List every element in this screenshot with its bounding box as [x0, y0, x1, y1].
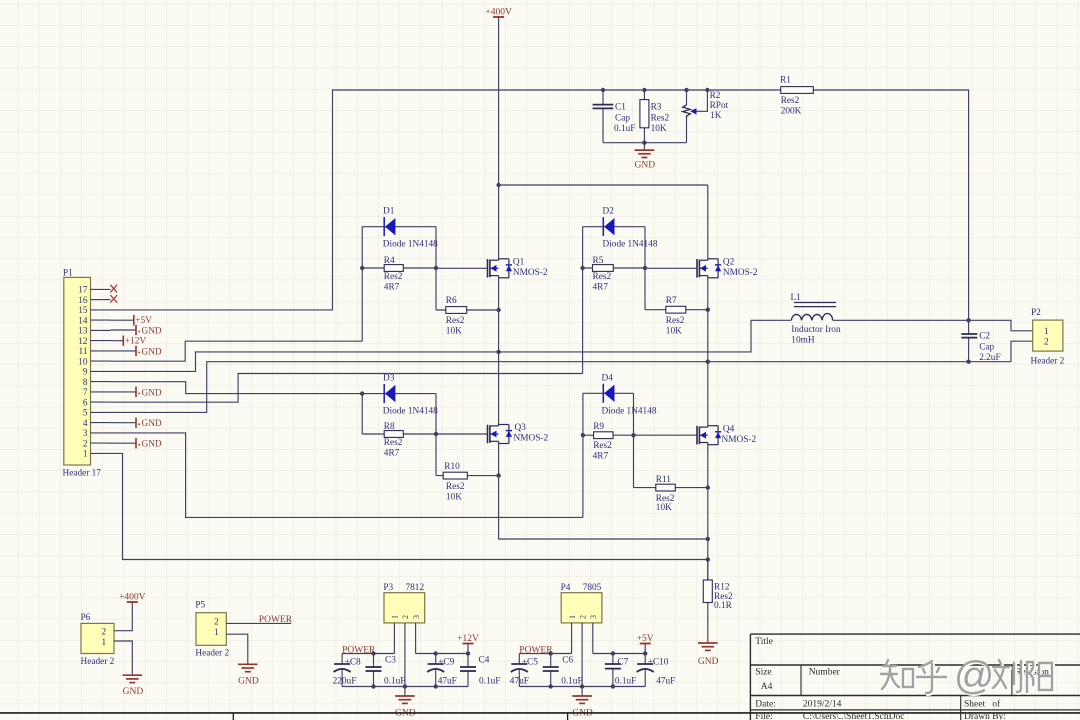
svg-text:1: 1: [83, 450, 88, 460]
svg-text:4R7: 4R7: [384, 448, 400, 458]
svg-text:R7: R7: [666, 296, 677, 306]
svg-text:7: 7: [83, 388, 88, 398]
diode D2: [602, 217, 604, 236]
regulator P3 7812: [384, 593, 425, 623]
svg-text:14: 14: [78, 316, 88, 326]
svg-text:NMOS-2: NMOS-2: [722, 435, 757, 445]
node +400V branch junction: [496, 183, 500, 187]
wire P3 pin2: [404, 623, 406, 696]
svg-text:Title: Title: [755, 637, 773, 647]
wire P3 pin1: [393, 623, 395, 654]
wire Q2 gate: [645, 267, 697, 269]
node output rail end: [643, 651, 647, 655]
svg-text:+5V: +5V: [135, 316, 152, 326]
node R5 left: [580, 266, 584, 270]
resistor R7: [645, 309, 708, 311]
capacitor C4: [467, 654, 469, 668]
svg-text:R5: R5: [593, 256, 604, 266]
wire Q4 gate: [634, 434, 698, 436]
svg-text:NMOS-2: NMOS-2: [514, 434, 549, 444]
node R9 left junction: [581, 433, 585, 437]
watermark zhihu: [881, 660, 1053, 694]
node R9 right: [631, 433, 635, 437]
no-connect X pin17: [110, 285, 117, 293]
wire Q2 source column: [707, 278, 709, 426]
svg-text:2: 2: [1044, 338, 1049, 348]
node R11 right: [706, 485, 710, 489]
wire P4 pin1: [571, 623, 573, 654]
node sense join: [706, 537, 710, 541]
svg-text:7812: 7812: [406, 583, 425, 593]
wire cell4 left column: [582, 393, 584, 517]
svg-text:P6: P6: [81, 613, 91, 623]
wire +12V riser: [467, 644, 469, 654]
svg-text:R10: R10: [444, 462, 460, 472]
transistor Q3: [487, 425, 489, 444]
node bottom rail C7: [611, 684, 615, 688]
svg-text:13: 13: [78, 327, 88, 337]
svg-text:Header 2: Header 2: [195, 648, 229, 658]
wire bus right of R1: [813, 90, 968, 320]
transistor Q2: [696, 259, 698, 278]
title block: [749, 634, 751, 720]
svg-text:+C10: +C10: [648, 658, 669, 668]
wire Q3 gate: [436, 433, 488, 435]
node C2 bottom: [966, 360, 970, 364]
power port +5V pin14: [111, 319, 134, 321]
ground GND below P6: [123, 674, 143, 676]
svg-text:Q4: Q4: [723, 425, 735, 435]
svg-text:Res2: Res2: [781, 96, 800, 106]
power port GND pin7: [111, 391, 137, 393]
wire sense pin1: [111, 453, 708, 559]
wire P4 pin3: [592, 623, 594, 654]
svg-text:GND: GND: [635, 160, 656, 170]
connector P6 Header 2: [81, 623, 114, 653]
svg-text:0.1uF: 0.1uF: [479, 677, 500, 687]
svg-text:L1: L1: [791, 293, 802, 303]
resistor R5: [583, 267, 645, 269]
power port +400V: [493, 16, 504, 18]
wire P3 pin3: [415, 623, 417, 654]
svg-text:4: 4: [83, 419, 88, 429]
pin 15 of P1: [91, 309, 111, 311]
svg-text:4R7: 4R7: [593, 452, 609, 462]
wire P4 input rail: [519, 653, 571, 655]
diode D3: [383, 384, 385, 403]
svg-text:D4: D4: [602, 374, 614, 384]
wire pin15 to bus: [111, 90, 781, 310]
svg-text:10K: 10K: [446, 327, 462, 337]
node D3 left: [360, 391, 364, 395]
ground GND below P5: [238, 663, 258, 665]
svg-text:C6: C6: [562, 656, 573, 666]
svg-text:Q1: Q1: [513, 258, 525, 268]
svg-text:+400V: +400V: [119, 593, 146, 603]
node bottom rail C9: [434, 684, 438, 688]
svg-text:11: 11: [79, 347, 88, 357]
power port +12V pin12: [111, 340, 124, 342]
pin 6 of P1: [91, 401, 111, 403]
svg-text:2: 2: [214, 618, 219, 628]
node sense pin1 join: [706, 557, 710, 561]
pin 7 of P1: [91, 391, 111, 393]
svg-text:7805: 7805: [583, 583, 602, 593]
wire P4 pin2: [581, 623, 583, 696]
capacitor C1: [601, 88, 605, 92]
wire P3 bottom rail: [342, 686, 468, 688]
svg-text:10K: 10K: [656, 503, 672, 513]
svg-text:Diode 1N4148: Diode 1N4148: [383, 240, 438, 250]
svg-text:Number: Number: [809, 667, 841, 677]
svg-text:Size: Size: [755, 667, 771, 677]
resistor R8: [362, 433, 436, 435]
node output A leg: [496, 350, 500, 354]
diode D4: [602, 384, 604, 403]
svg-text:8: 8: [83, 378, 88, 388]
node R4 left: [360, 266, 364, 270]
svg-text:Diode 1N4148: Diode 1N4148: [603, 240, 658, 250]
svg-text:10K: 10K: [651, 124, 667, 134]
svg-text:2: 2: [102, 628, 107, 638]
svg-text:P4: P4: [561, 583, 571, 593]
pin 8 of P1: [91, 381, 111, 383]
svg-text:10mH: 10mH: [791, 336, 815, 346]
svg-text:200K: 200K: [781, 107, 802, 117]
wire P5 pin1 to ground: [226, 634, 248, 664]
svg-text:POWER: POWER: [519, 645, 553, 655]
svg-text:A4: A4: [761, 682, 773, 692]
svg-text:+C8: +C8: [345, 658, 361, 668]
wire +400V vertical to Q1 drain: [498, 17, 500, 259]
resistor R10: [436, 475, 499, 477]
svg-text:9: 9: [83, 368, 88, 378]
svg-text:47uF: 47uF: [438, 677, 457, 687]
svg-text:Res2: Res2: [446, 316, 465, 326]
wire cell3 mid column: [435, 394, 437, 476]
svg-text:0.1uF: 0.1uF: [614, 124, 635, 134]
power port GND pin4: [111, 422, 137, 424]
svg-text:17: 17: [78, 286, 88, 296]
wire gates B pin6: [111, 374, 583, 403]
node R8 right: [434, 432, 438, 436]
svg-text:1: 1: [1044, 327, 1049, 337]
no-connect X pin16: [110, 295, 117, 303]
svg-text:GND: GND: [238, 676, 259, 686]
svg-text:2019/2/14: 2019/2/14: [803, 700, 842, 710]
capacitor C2: [968, 320, 970, 334]
wire cell2 mid column: [644, 227, 646, 310]
power port GND pin13: [111, 329, 137, 331]
wire cell2 left column: [582, 227, 584, 374]
node R5 right: [643, 266, 647, 270]
svg-text:NMOS-2: NMOS-2: [513, 268, 548, 278]
potentiometer R2: [684, 88, 688, 92]
resistor R4: [362, 267, 436, 269]
pin 3 of P1: [91, 432, 111, 434]
wire P3 input rail: [342, 653, 394, 655]
svg-text:R11: R11: [656, 475, 672, 485]
node R10 right: [496, 473, 500, 477]
svg-text:GND: GND: [123, 687, 144, 697]
pin 10 of P1: [91, 360, 111, 362]
svg-text:2: 2: [401, 615, 410, 619]
node R6 right: [496, 308, 500, 312]
svg-text:@: @: [954, 654, 995, 698]
wire P6 pin1 to ground: [114, 641, 132, 675]
node output B leg: [706, 360, 710, 364]
svg-text:Sheet of: Sheet of: [964, 699, 1001, 710]
power port +5V: [640, 643, 651, 645]
svg-text:R2: R2: [710, 91, 721, 101]
transistor Q4: [696, 426, 698, 445]
pin 2 of P1: [91, 442, 111, 444]
wire P5 pin2 POWER: [226, 622, 291, 624]
wire pin8 gate drive and D3 row: [111, 382, 437, 394]
pin 5 of P1: [91, 411, 111, 413]
node C9 top: [434, 651, 438, 655]
inductor L1: [794, 302, 836, 304]
wire R2 wiper: [705, 88, 709, 92]
wire pin10 gate drive A1: [111, 341, 363, 361]
svg-text:+12V: +12V: [457, 634, 479, 644]
svg-text:GND: GND: [142, 440, 162, 450]
svg-text:C1: C1: [615, 103, 626, 113]
svg-text:Res2: Res2: [384, 438, 403, 448]
svg-text:P1: P1: [63, 268, 73, 278]
wire P6 pin2 to +400V: [114, 602, 132, 631]
svg-text:P2: P2: [1031, 308, 1041, 318]
node R4 right: [434, 266, 438, 270]
wire cell3 left column: [361, 394, 363, 434]
svg-text:47uF: 47uF: [656, 677, 675, 687]
svg-text:Res2: Res2: [384, 272, 403, 282]
power port GND pin2: [111, 442, 137, 444]
svg-text:R6: R6: [446, 296, 457, 306]
ground GND below R12: [698, 642, 718, 644]
svg-text:5: 5: [83, 409, 88, 419]
svg-text:4R7: 4R7: [384, 282, 400, 292]
svg-text:0.1uF: 0.1uF: [615, 677, 636, 687]
node rail to ground: [642, 141, 646, 145]
node C2 top: [966, 318, 970, 322]
ground GND below P3: [395, 695, 415, 697]
wire output A pin9 to inductor: [111, 320, 792, 371]
svg-text:+12V: +12V: [125, 337, 147, 347]
resistor R11: [634, 487, 708, 489]
resistor R9: [583, 434, 634, 436]
svg-text:C4: C4: [479, 656, 490, 666]
svg-text:GND: GND: [142, 326, 162, 336]
svg-text:0.1uF: 0.1uF: [561, 677, 582, 687]
ground GND below R3: [643, 143, 645, 150]
power port +12V: [463, 643, 474, 645]
svg-text:R8: R8: [384, 422, 395, 432]
svg-text:+400V: +400V: [485, 8, 512, 18]
svg-text:Cap: Cap: [615, 114, 630, 124]
svg-text:3: 3: [412, 615, 421, 619]
svg-text:P3: P3: [383, 583, 393, 593]
capacitor C10: [644, 654, 646, 665]
node bottom rail pin2: [580, 684, 584, 688]
connector P2 Header 2: [1033, 320, 1063, 351]
pin 1 of P1: [91, 452, 111, 454]
svg-text:1: 1: [568, 615, 577, 619]
wire pin3 gate drive B2: [111, 433, 583, 518]
svg-text:Res2: Res2: [593, 441, 612, 451]
wire inductor to C2 and P2 pin1: [833, 320, 1033, 331]
svg-text:Header 2: Header 2: [81, 657, 115, 667]
svg-text:GND: GND: [142, 388, 162, 398]
capacitor C3: [373, 654, 375, 668]
wire cell4 mid column: [633, 393, 635, 487]
svg-text:GND: GND: [698, 657, 719, 667]
svg-text:10K: 10K: [446, 493, 462, 503]
svg-text:0.1R: 0.1R: [714, 601, 733, 611]
pin 9 of P1: [91, 370, 111, 372]
svg-text:C7: C7: [617, 658, 628, 668]
resistor R12: [707, 560, 709, 643]
svg-text:6: 6: [83, 398, 88, 408]
regulator P4 7805: [561, 593, 602, 623]
svg-text:Res2: Res2: [593, 272, 612, 282]
svg-text:+C5: +C5: [522, 658, 538, 668]
svg-text:Diode 1N4148: Diode 1N4148: [602, 407, 657, 417]
svg-text:C3: C3: [385, 656, 396, 666]
node C7 top: [611, 651, 615, 655]
svg-text:Res2: Res2: [446, 482, 465, 492]
ground GND below P4: [572, 695, 592, 697]
svg-text:47uF: 47uF: [510, 677, 529, 687]
capacitor C8: [341, 654, 343, 665]
node bottom rail C6: [549, 684, 553, 688]
svg-text:RPot: RPot: [710, 101, 729, 111]
svg-text:Cap: Cap: [979, 343, 994, 353]
svg-text:2: 2: [578, 615, 587, 619]
svg-text:220uF: 220uF: [333, 677, 357, 687]
svg-text:1: 1: [391, 615, 400, 619]
wire D1 row: [362, 226, 436, 228]
svg-text:3: 3: [83, 429, 88, 439]
svg-text:Header 17: Header 17: [63, 469, 102, 479]
svg-text:GND: GND: [142, 347, 162, 357]
wire P4 output rail: [593, 653, 645, 655]
svg-text:File:: File:: [755, 712, 772, 720]
connector P1 Header 17: [64, 277, 91, 465]
svg-text:10: 10: [78, 357, 88, 367]
svg-text:Q3: Q3: [515, 423, 527, 433]
wire Q1 gate: [436, 267, 488, 269]
wire Q3 source to sense: [499, 444, 708, 540]
pin 16 of P1: [91, 299, 111, 301]
connector P5 Header 2: [196, 613, 226, 646]
pin 14 of P1: [91, 319, 111, 321]
svg-text:1: 1: [102, 638, 107, 648]
wire cell1 left column: [361, 227, 363, 342]
sheet bottom border: [0, 712, 1080, 714]
wire Q1 source column: [498, 278, 500, 425]
wire D2 row: [583, 226, 645, 228]
svg-text:Diode 1N4148: Diode 1N4148: [383, 407, 438, 417]
svg-text:1K: 1K: [710, 111, 722, 121]
wire +5V riser: [644, 644, 646, 654]
wire C1 R3 R2 bottom rail: [603, 142, 687, 144]
capacitor C7: [612, 654, 614, 665]
pin 13 of P1: [91, 329, 111, 331]
wire D4 row: [583, 392, 634, 394]
svg-text:D2: D2: [603, 207, 615, 217]
svg-text:R9: R9: [593, 422, 604, 432]
svg-text:Q2: Q2: [723, 258, 735, 268]
pin 12 of P1: [91, 340, 111, 342]
svg-text:3: 3: [589, 615, 598, 619]
svg-text:12: 12: [78, 337, 88, 347]
svg-text:NMOS-2: NMOS-2: [723, 268, 758, 278]
svg-text:C2: C2: [979, 332, 990, 342]
svg-text:1: 1: [214, 628, 219, 638]
wire P3 output rail: [416, 653, 468, 655]
wire P4 bottom rail: [519, 686, 645, 688]
pin 17 of P1: [91, 288, 111, 290]
pin 4 of P1: [91, 422, 111, 424]
resistor R6: [436, 309, 499, 311]
svg-text:R4: R4: [384, 256, 395, 266]
wire +400V branch to Q2 drain: [499, 184, 708, 186]
svg-text:GND: GND: [142, 419, 162, 429]
svg-text:Res2: Res2: [666, 316, 685, 326]
svg-text:2: 2: [83, 439, 88, 449]
node C6 top: [549, 651, 553, 655]
svg-text:16: 16: [78, 296, 88, 306]
svg-text:4R7: 4R7: [593, 282, 609, 292]
power port +400V at P6: [127, 601, 138, 603]
svg-text:Drawn By:: Drawn By:: [964, 712, 1006, 720]
power port GND pin11: [111, 350, 137, 352]
svg-text:Inductor Iron: Inductor Iron: [791, 325, 841, 335]
svg-text:+C9: +C9: [438, 658, 454, 668]
node output rail end: [466, 651, 470, 655]
svg-text:C:\Users\..\Sheet1.SchDoc: C:\Users\..\Sheet1.SchDoc: [803, 712, 905, 720]
svg-text:10K: 10K: [666, 327, 682, 337]
node bottom rail pin2: [403, 684, 407, 688]
svg-text:Date:: Date:: [755, 700, 776, 710]
svg-text:0.1uF: 0.1uF: [384, 677, 405, 687]
capacitor C9: [435, 654, 437, 665]
svg-text:D1: D1: [383, 207, 395, 217]
svg-text:POWER: POWER: [342, 645, 376, 655]
node C3 top: [371, 651, 375, 655]
node bottom rail C3: [371, 684, 375, 688]
wire Q4 source column: [707, 445, 709, 580]
resistor R3: [642, 88, 646, 92]
svg-text:Res2: Res2: [651, 114, 670, 124]
svg-text:R1: R1: [780, 76, 791, 86]
svg-text:Header 2: Header 2: [1031, 357, 1065, 367]
svg-text:15: 15: [78, 306, 88, 316]
node R7 right: [706, 308, 710, 312]
svg-text:R3: R3: [651, 103, 662, 113]
capacitor C5: [518, 654, 520, 665]
wire cell1 mid column: [435, 227, 437, 310]
pin 11 of P1: [91, 350, 111, 352]
wire output B pin5 to C2 bottom and P2 pin2: [111, 362, 1012, 413]
svg-text:+5V: +5V: [637, 634, 654, 644]
resistor R1: [781, 87, 814, 94]
transistor Q1: [487, 259, 489, 278]
svg-text:P5: P5: [195, 601, 205, 611]
capacitor C6: [550, 654, 552, 668]
svg-text:D3: D3: [383, 374, 395, 384]
